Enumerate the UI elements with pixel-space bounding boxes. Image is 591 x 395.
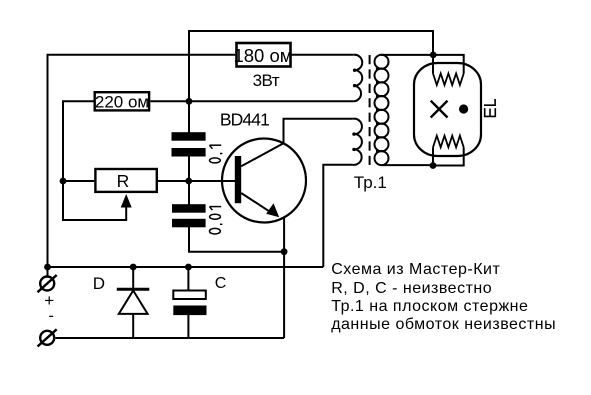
transformer core (dashed) — [369, 55, 371, 165]
lamp X mark — [431, 101, 448, 118]
capacitor C bottom plate (solid) — [173, 306, 206, 316]
capacitor C1 0,1 plates — [172, 132, 206, 156]
junction node emitter — [281, 248, 288, 255]
svg-text:180 ом: 180 ом — [233, 45, 292, 66]
transistor Q1 BD441 circle — [222, 139, 306, 223]
wire capacitor C bottom leg — [187, 315, 189, 338]
terminal - (bottom) — [38, 329, 57, 346]
wire lamp bottom left electrode — [432, 147, 434, 165]
wire R wiper loop — [63, 181, 126, 220]
winding cusp dots — [352, 67, 379, 153]
svg-text:3Вт: 3Вт — [253, 71, 280, 90]
potentiometer wiper arrow — [121, 194, 132, 208]
wire collector to lower primary top lead — [241, 119, 352, 167]
wire lamp top left electrode — [432, 55, 434, 74]
capacitor C top plate (hollow) — [173, 291, 206, 300]
lamp dot — [459, 104, 468, 113]
capacitor C2 0,01 plates — [172, 204, 206, 227]
svg-text:-: - — [49, 308, 54, 325]
wire diode bottom leg — [132, 314, 134, 338]
wire 180om right to upper primary lead — [292, 54, 354, 56]
wire capacitor C top leg — [187, 267, 189, 291]
wire lamp bottom right electrode loop — [433, 147, 464, 165]
junction node cap C top — [185, 264, 192, 271]
wire lower primary bottom lead to plus bus — [323, 165, 352, 267]
wire plus bus — [48, 266, 324, 268]
resistor R1 180 om box — [237, 43, 291, 67]
wire lamp top right electrode loop — [433, 55, 464, 74]
lamp bottom filament zigzag — [433, 136, 464, 148]
svg-text:R: R — [117, 171, 130, 191]
note text block — [331, 261, 556, 333]
diode D triangle — [119, 291, 148, 314]
svg-text:R, D, C - неизвестно: R, D, C - неизвестно — [331, 280, 492, 297]
label 0,01 (rotated) — [209, 207, 222, 234]
wire base line R right to transistor base — [158, 180, 236, 182]
transistor base bar — [235, 156, 241, 203]
wire secondary top lead to lamp — [381, 54, 433, 56]
wire diode top leg — [132, 267, 134, 288]
svg-text:данные обмоток неизвестны: данные обмоток неизвестны — [331, 316, 556, 333]
resistor R2 220 om box — [95, 92, 149, 110]
wire emitter down to bottom rail — [283, 217, 285, 339]
junction node plus terminal — [44, 264, 51, 271]
svg-text:Тр.1: Тр.1 — [354, 173, 387, 192]
wire between 0,1 cap and 0,01 cap — [188, 156, 190, 205]
junction node R left — [60, 178, 67, 185]
junction node base — [185, 178, 192, 185]
junction node lamp top — [430, 52, 437, 59]
svg-text:220 ом: 220 ом — [95, 93, 149, 112]
terminal + (top) — [38, 275, 57, 292]
lamp EL envelope — [414, 63, 481, 156]
potentiometer R box — [95, 169, 156, 192]
label EL (rotated) — [484, 99, 495, 117]
diode D cathode bar — [117, 288, 150, 291]
svg-text:C: C — [215, 275, 227, 292]
wire +rail vertical and to 180om — [48, 55, 236, 276]
wire capacitor chain x=189 upper — [188, 101, 190, 133]
transformer Tr.1 lower primary winding — [353, 119, 362, 165]
svg-text:Тр.1 на плоском стержне: Тр.1 на плоском стержне — [331, 298, 528, 315]
transformer Tr.1 upper primary winding — [353, 55, 362, 102]
svg-text:BD441: BD441 — [220, 109, 269, 129]
wire 220om left leg — [63, 101, 94, 181]
junction node lamp bottom — [430, 162, 437, 169]
svg-text:D: D — [93, 274, 105, 293]
wire 220om right to upper primary bottom lead — [150, 100, 353, 102]
lamp top filament zigzag — [433, 74, 464, 86]
label 0,1 (rotated) — [209, 145, 222, 163]
transformer Tr.1 secondary winding — [375, 55, 389, 165]
junction node diode top — [130, 264, 137, 271]
wire secondary bottom lead to lamp — [381, 164, 433, 166]
svg-text:Схема из Мастер-Кит: Схема из Мастер-Кит — [331, 261, 500, 278]
transistor emitter line with arrow — [241, 193, 275, 215]
wire minus bottom rail — [56, 337, 285, 339]
wire R left — [63, 180, 94, 182]
wire 0,01 cap bottom to emitter node — [189, 227, 284, 252]
junction node A (220om/top loop) — [186, 98, 193, 105]
wire top loop from node A to lamp top — [189, 31, 433, 102]
